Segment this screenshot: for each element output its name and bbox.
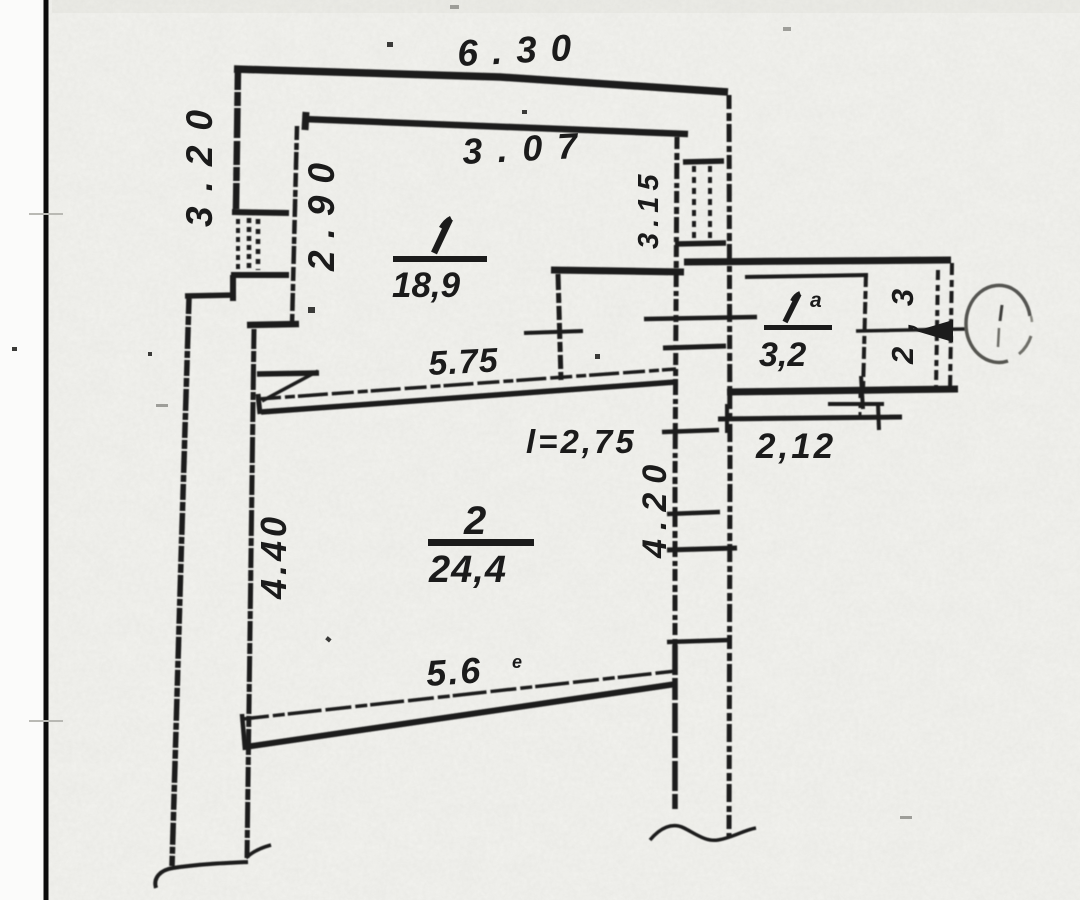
window W2 sill bottom	[675, 243, 726, 244]
hall wall left vertical	[558, 274, 561, 380]
svg-text:5.75: 5.75	[427, 341, 499, 383]
dim tick x877	[878, 404, 879, 430]
entrance arrow head	[916, 320, 953, 342]
outer wall top (6.30 side)	[234, 69, 728, 92]
inner wall left room2	[247, 329, 254, 858]
bottom wall left end	[242, 714, 245, 750]
room1 fraction bar	[393, 256, 487, 262]
closet line	[828, 402, 884, 406]
dim tick x862	[861, 376, 863, 409]
partition wall left end	[258, 394, 260, 414]
registration tick upper	[29, 213, 63, 215]
break line bottom column	[650, 826, 756, 841]
room1a top wall	[684, 260, 951, 262]
svg-text:6.30: 6.30	[456, 26, 586, 74]
break line bottom-left	[155, 862, 248, 888]
svg-text:4.20: 4.20	[636, 456, 674, 559]
room1 number	[434, 219, 450, 253]
wall column line A lower	[672, 645, 678, 809]
door stub	[257, 373, 319, 374]
window W2 sill top	[683, 161, 724, 162]
circle inner mark upper	[1000, 305, 1002, 321]
bottom wall 5.6 lower line	[245, 684, 676, 747]
room2 fraction bar	[428, 539, 534, 546]
registration tick lower	[29, 720, 63, 722]
outer wall step	[185, 295, 236, 296]
outer wall left	[172, 298, 189, 866]
partition wall 5.75 upper line	[259, 369, 676, 399]
svg-text:2,12: 2,12	[755, 427, 836, 466]
room1a inner top line	[745, 275, 868, 277]
svg-text:e: e	[512, 652, 522, 672]
tick y549	[667, 548, 737, 550]
room1a fraction bar	[764, 325, 832, 330]
tick y318	[644, 317, 757, 319]
tick y641	[667, 640, 730, 642]
svg-text:3.20: 3.20	[179, 95, 220, 227]
balcony circle	[966, 285, 1030, 324]
door swing diagonal	[262, 371, 318, 401]
dim line 2.12	[718, 417, 902, 419]
inner wall start cap	[305, 112, 306, 130]
window W2 hatch	[692, 166, 696, 240]
window W1 left wall sill bottom	[231, 272, 289, 278]
inner wall bottom hook	[246, 845, 271, 858]
tick y347	[663, 346, 726, 348]
svg-text:l=2,75: l=2,75	[526, 423, 637, 460]
window W1 hatch	[236, 219, 240, 270]
closet vertical	[859, 392, 862, 419]
room1a inner vertical	[863, 273, 866, 392]
wall column line A upper	[675, 137, 677, 645]
hall wall y270	[551, 270, 684, 272]
dim end vertical x727	[725, 404, 729, 433]
outer wall below window	[230, 275, 236, 301]
tick y513	[667, 512, 720, 514]
speckles	[12, 42, 600, 642]
room1a number	[785, 294, 799, 322]
svg-text:2.90: 2.90	[301, 151, 342, 272]
circle inner mark lower	[998, 328, 999, 347]
inner wall left room1	[292, 126, 297, 326]
bottom wall 5.6 upper line	[243, 671, 676, 719]
partition wall 5.75 lower line	[261, 382, 676, 412]
wall column line B	[729, 95, 730, 838]
svg-text:4.40: 4.40	[253, 513, 294, 600]
inner wall jog	[247, 324, 299, 325]
svg-text:5.6: 5.6	[425, 649, 484, 694]
svg-text:18,9: 18,9	[392, 266, 461, 305]
svg-text:3,2: 3,2	[759, 336, 806, 374]
scan border line	[44, 0, 49, 900]
svg-text:2,3: 2,3	[885, 273, 920, 365]
svg-text:2: 2	[463, 499, 486, 543]
entrance arrow line	[856, 329, 965, 331]
tick y332	[524, 331, 583, 333]
outer wall top-left corner segment	[236, 66, 238, 209]
balcony dashed vertical outer	[950, 263, 952, 392]
inner wall top (3.07 side)	[303, 119, 688, 134]
room1a bottom wall	[727, 389, 958, 392]
svg-text:a: a	[810, 289, 822, 312]
svg-text:3.07: 3.07	[461, 124, 593, 172]
window W1 left wall sill top	[232, 212, 289, 213]
svg-text:24,4: 24,4	[428, 549, 507, 591]
tick y431	[662, 430, 719, 432]
balcony dashed vertical inner	[936, 270, 938, 388]
svg-text:3.15: 3.15	[633, 169, 665, 249]
